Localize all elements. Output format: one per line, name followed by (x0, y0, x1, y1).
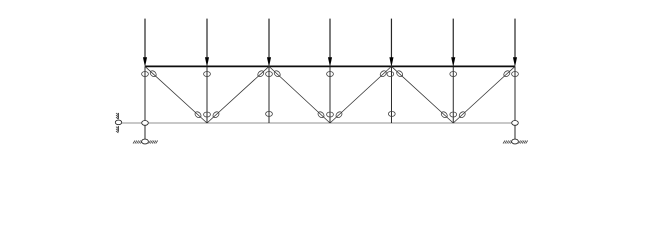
hinge release, vertical V6 bottom (450, 112, 457, 117)
force F6 (451, 19, 455, 67)
force F5 (389, 19, 393, 67)
hinge release, diagonal end at top node 3 (right) (273, 70, 281, 78)
diagonal member D2 (207, 66, 269, 123)
node circle at bottom chord support node B (142, 121, 149, 126)
hinge release, vertical V3 bottom (266, 111, 273, 116)
hinge release, vertical V2 top (204, 72, 211, 77)
ground hatching at support B (133, 141, 158, 144)
roller support wall hatch ticks (116, 113, 118, 133)
vertical member V3 (268, 66, 270, 123)
diagonal member D5 (391, 66, 453, 123)
roller support (horizontal) wall line upper segment (117, 113, 119, 119)
force F3 (267, 19, 271, 67)
hinge release, diagonal end at top node 7 (left) (503, 70, 511, 78)
hinge release, vertical V1 top (142, 72, 149, 77)
pinned support circle C (512, 139, 519, 144)
force F7 (513, 19, 517, 67)
hinge release, diagonal end at bottom node 4 (left) (317, 111, 325, 119)
diagonal member D4 (330, 66, 391, 123)
diagonal member D3 (269, 66, 330, 123)
roller support wall line lower segment (117, 126, 119, 132)
vertical member V2 (206, 66, 208, 123)
hinge release, vertical V4 bottom (327, 112, 334, 117)
hinge release, vertical V5 bottom (388, 111, 395, 116)
hinge release, diagonal end at bottom node 2 (left) (194, 111, 202, 119)
vertical member V6 (452, 66, 454, 123)
force F2 (205, 19, 209, 67)
hinge release, diagonal end at bottom node 2 (right) (212, 111, 220, 119)
hinge release, diagonal end at top node 5 (left) (379, 70, 387, 78)
hinge release, vertical V6 top (450, 72, 457, 77)
pinned support circle B (142, 139, 149, 144)
support link member below node C (514, 123, 516, 140)
vertical member V5 (390, 66, 392, 123)
hinge release, diagonal end at bottom node 4 (right) (335, 111, 343, 119)
hinge release, vertical V3 top (266, 72, 273, 77)
force F4 (328, 19, 332, 67)
force F1 (143, 19, 147, 67)
hinge release, vertical V2 bottom (204, 112, 211, 117)
top chord member (145, 65, 515, 67)
bottom chord member (122, 122, 515, 124)
diagonal member D1 (145, 66, 207, 123)
vertical member V4 (329, 66, 331, 123)
node circle at bottom chord support node C (512, 121, 519, 126)
hinge release, diagonal end at top node 5 (right) (395, 70, 403, 78)
vertical member V1 (144, 66, 146, 123)
hinge release, diagonal end at bottom node 6 (right) (458, 111, 466, 119)
roller support circle (support node A) (115, 120, 121, 125)
hinge release, diagonal end at top node 1 (right) (149, 70, 157, 78)
support link member below node B (144, 123, 146, 140)
truss analysis model diagram (0, 0, 667, 155)
diagonal member D6 (453, 66, 515, 123)
ground hatching at support C (503, 141, 528, 144)
hinge release, vertical V4 top (327, 72, 334, 77)
vertical member V7 (514, 66, 516, 123)
hinge release, diagonal end at bottom node 6 (left) (440, 111, 448, 119)
hinge release, vertical V7 top (512, 72, 519, 77)
hinge release, diagonal end at top node 3 (left) (257, 70, 265, 78)
hinge release, vertical V5 top (387, 72, 394, 77)
